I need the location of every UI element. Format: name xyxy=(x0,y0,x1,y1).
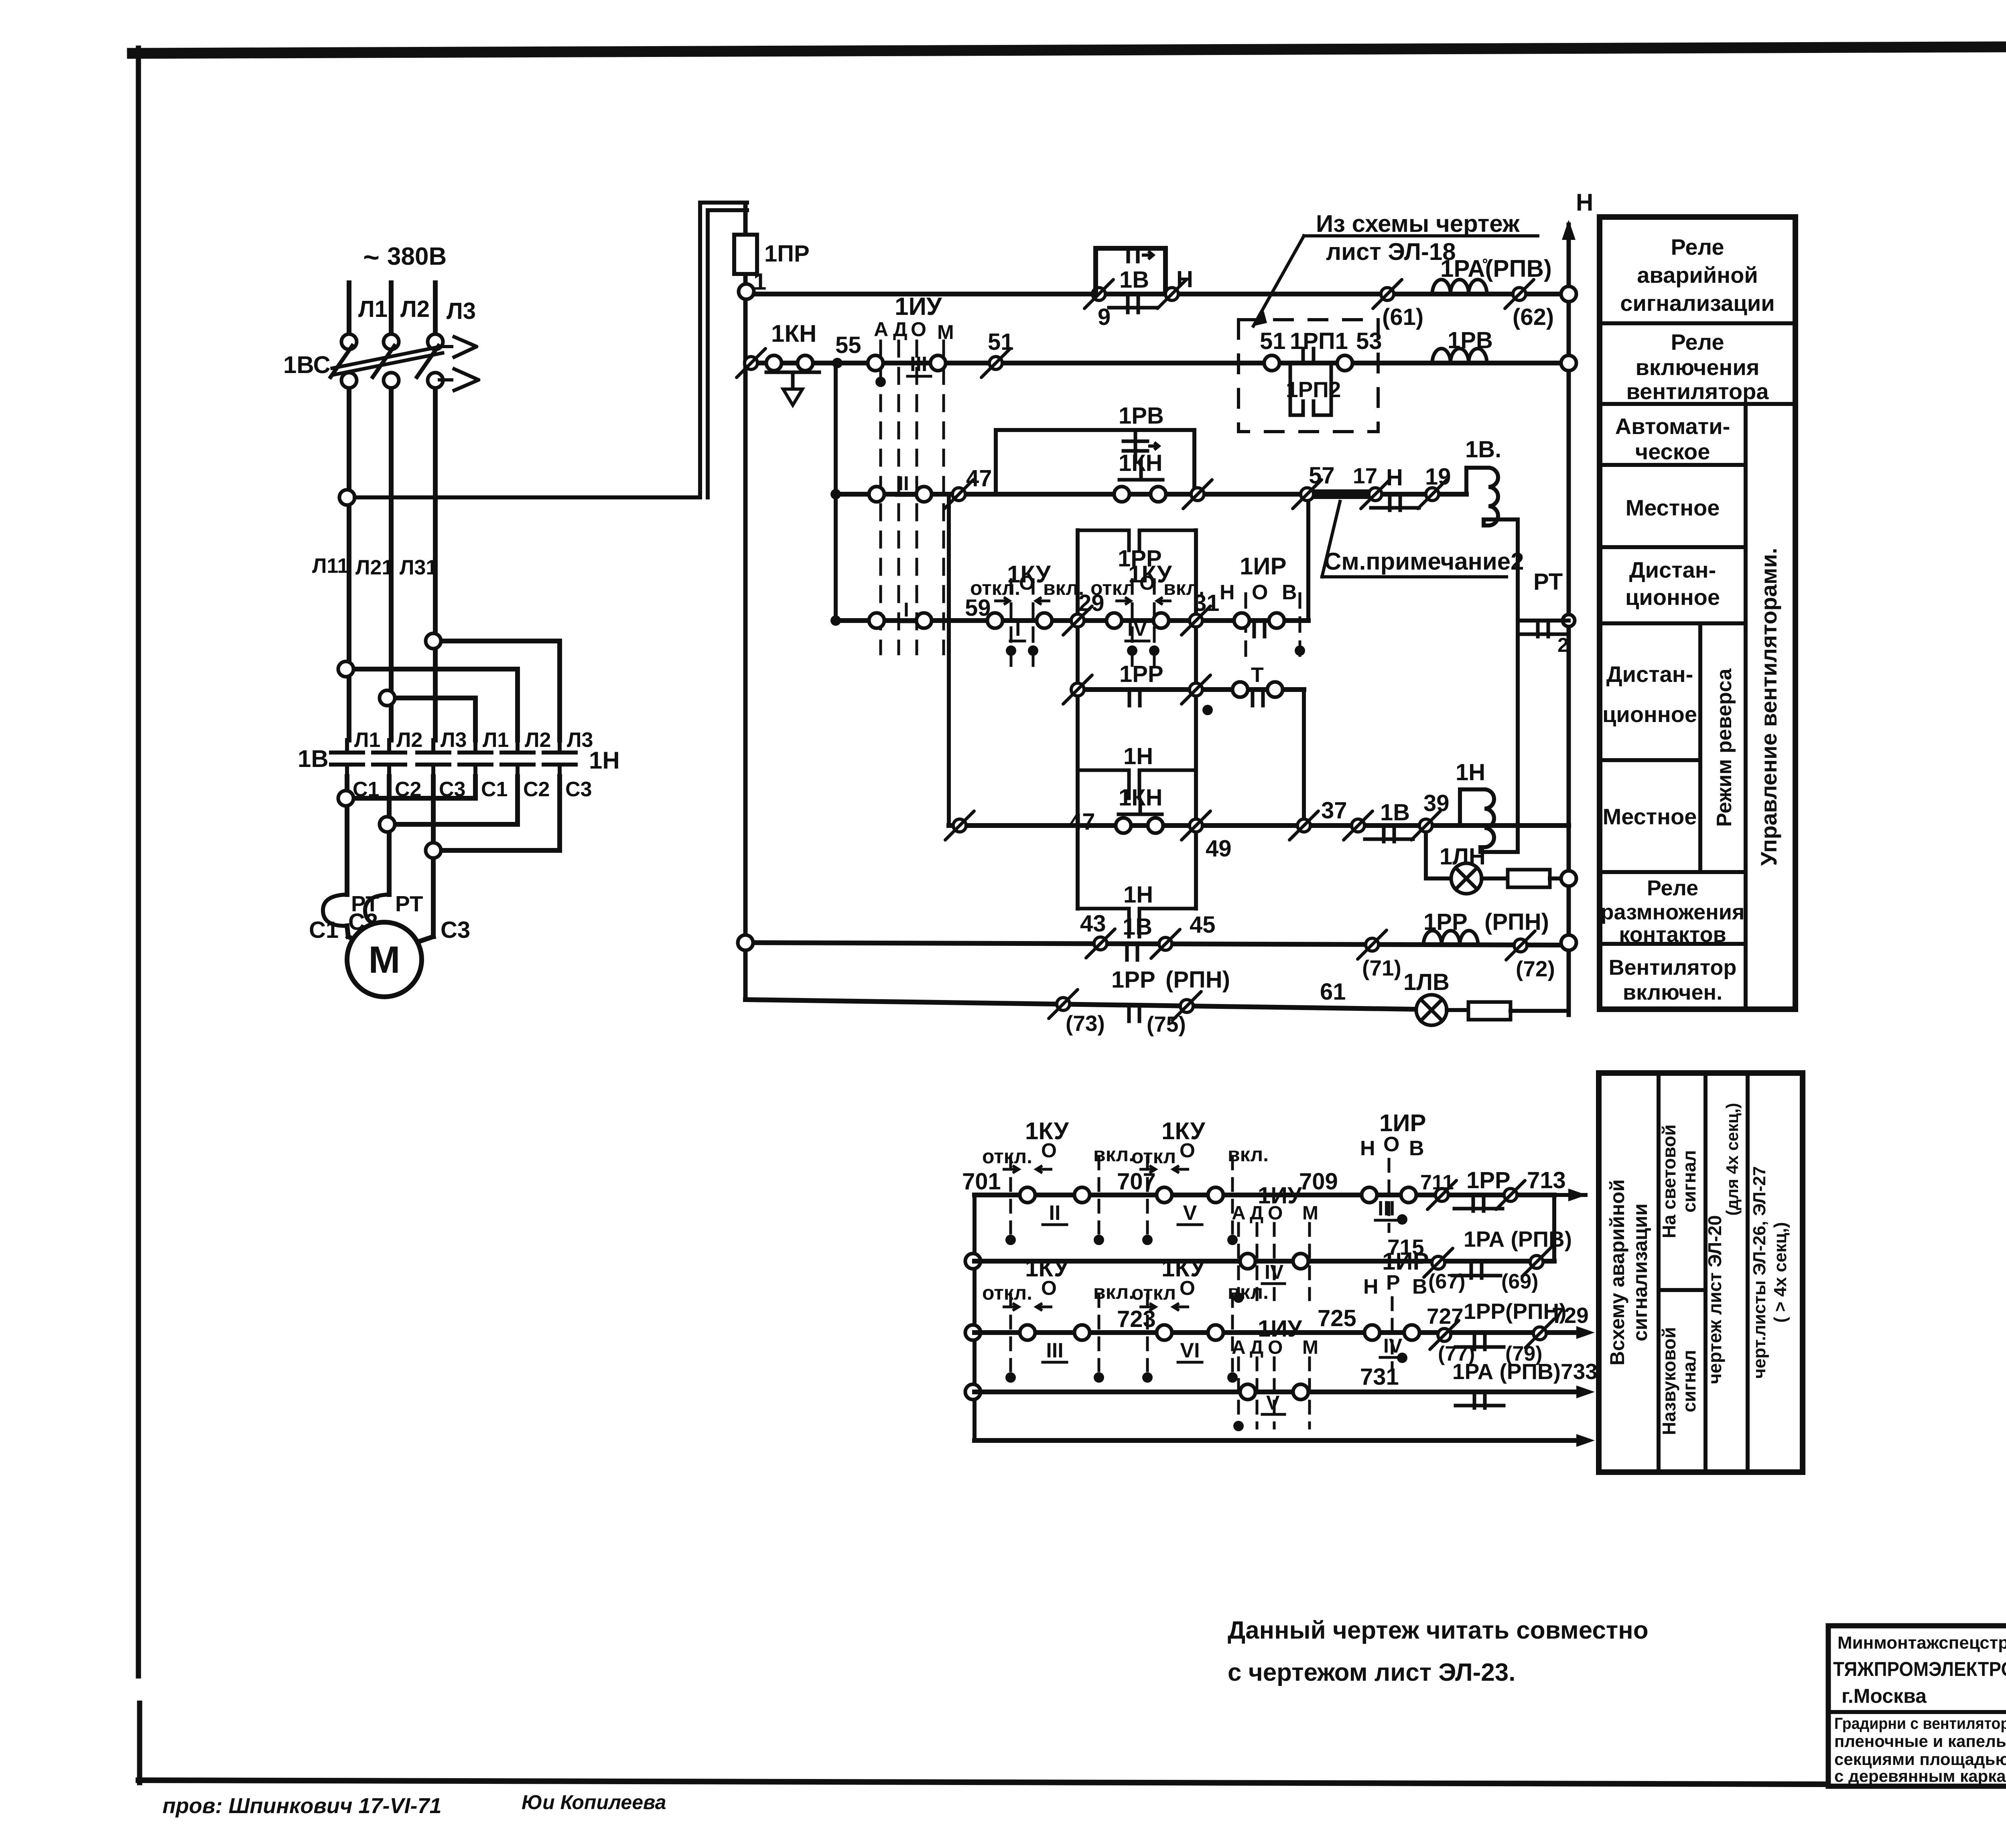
svg-text:1Н: 1Н xyxy=(589,747,620,774)
svg-text:729: 729 xyxy=(1552,1303,1589,1328)
svg-text:725: 725 xyxy=(1318,1305,1356,1331)
contact 1N bypass upper xyxy=(1078,743,1196,798)
svg-text:709: 709 xyxy=(1299,1168,1338,1195)
contact 1IU-V xyxy=(1232,1316,1318,1431)
svg-text:С1: С1 xyxy=(309,917,339,943)
contact 1RA (RPV) 733 xyxy=(1452,1359,1598,1408)
svg-text:55: 55 xyxy=(835,332,861,358)
svg-text:III: III xyxy=(1046,1339,1063,1362)
table row: local xyxy=(1626,495,1720,520)
svg-text:1ИР: 1ИР xyxy=(1379,1110,1426,1136)
relay box 1RP1 1RP2 (dashed) xyxy=(1239,320,1378,432)
labels L11 L21 L31 xyxy=(312,554,437,579)
svg-text:аварийной: аварийной xyxy=(1637,262,1758,288)
svg-text:47: 47 xyxy=(1069,809,1095,835)
wire motor leads xyxy=(347,807,433,931)
wire rail x3250 E-F xyxy=(1302,690,1306,826)
svg-text:М: М xyxy=(368,939,400,981)
svg-text:47: 47 xyxy=(966,465,992,491)
svg-text:V: V xyxy=(1266,1392,1280,1414)
contact slash at left xyxy=(945,809,1095,840)
svg-text:О: О xyxy=(1252,581,1268,604)
svg-text:Л1: Л1 xyxy=(354,728,380,752)
svg-text:Л3: Л3 xyxy=(447,298,476,324)
coil 1RA (RPV) xyxy=(1432,255,1552,294)
svg-text:ческое: ческое xyxy=(1635,439,1710,464)
labels RT RT xyxy=(351,891,423,916)
wire phase risers to contactors xyxy=(349,389,435,740)
svg-text:1: 1 xyxy=(753,269,766,295)
button 1KN hold contact xyxy=(1119,450,1163,480)
stop button 1KN xyxy=(766,320,819,405)
svg-text:Н: Н xyxy=(1363,1275,1379,1298)
wire phase leads L1 L2 L3 xyxy=(349,283,435,334)
svg-text:1Н: 1Н xyxy=(1123,743,1153,769)
svg-text:РТ: РТ xyxy=(395,891,423,916)
selector 1KU first contact group xyxy=(965,572,1084,666)
contact 1RP2 branch xyxy=(1286,363,1341,415)
signal table col2 top text xyxy=(1659,1124,1699,1238)
title block: issuer xyxy=(1833,1633,2006,1707)
label coil-side 1V xyxy=(298,745,329,772)
label 61 xyxy=(1320,979,1346,1005)
table row: contact multiplying relay xyxy=(1601,876,1745,947)
wire lower ladder left bus xyxy=(965,1195,981,1440)
svg-text:Л2: Л2 xyxy=(400,296,430,322)
svg-text:49: 49 xyxy=(1206,836,1232,862)
svg-text:Данный чертеж читать совме: Данный чертеж читать совместно xyxy=(1228,1617,1649,1644)
coil 1N vertical xyxy=(1444,759,1518,852)
contact 1RV time-delay xyxy=(1119,403,1164,451)
svg-text:вкл.: вкл. xyxy=(1228,1143,1269,1166)
svg-text:(71): (71) xyxy=(1362,955,1401,980)
contact 1IR-IV xyxy=(1363,1248,1429,1368)
title block frame xyxy=(1828,1626,2006,1786)
svg-text:1КУ: 1КУ xyxy=(1025,1255,1069,1282)
svg-text:2: 2 xyxy=(1557,634,1569,656)
svg-text:На световой: На световой xyxy=(1659,1124,1679,1238)
svg-text:с чертежом лист ЭЛ-23.: с чертежом лист ЭЛ-23. xyxy=(1228,1659,1515,1686)
node 57 thick segment (see note 2) xyxy=(1293,463,1390,509)
svg-text:Н: Н xyxy=(1576,189,1593,216)
selector 1KU second contact group xyxy=(1090,572,1204,666)
svg-text:См.примечание2: См.примечание2 xyxy=(1324,548,1524,575)
svg-text:Назвуковой: Назвуковой xyxy=(1659,1327,1679,1435)
svg-text:1В.: 1В. xyxy=(1465,436,1501,463)
label 707 xyxy=(1117,1168,1156,1195)
svg-text:В: В xyxy=(1282,581,1297,604)
svg-text:17: 17 xyxy=(1353,463,1377,488)
svg-text:1Н: 1Н xyxy=(1123,882,1153,908)
signal table col3 text xyxy=(1704,1103,1742,1384)
table row: automatic xyxy=(1615,414,1730,464)
contact 1RP1 xyxy=(1260,328,1382,371)
wire rail x2981 xyxy=(1194,530,1198,909)
contact slash 43 xyxy=(1080,911,1115,958)
contact slash pair rung E xyxy=(1063,675,1210,704)
svg-text:Л11: Л11 xyxy=(312,554,349,578)
svg-text:~: ~ xyxy=(363,241,380,273)
contact 1IU-III on rung B xyxy=(868,353,946,376)
label 1KU first xyxy=(1007,561,1051,588)
svg-text:1Н: 1Н xyxy=(1456,759,1485,785)
wire neutral bus N with arrow xyxy=(1562,220,1576,1015)
svg-text:пров: Шпинкович 17-VI-71: пров: Шпинкович 17-VI-71 xyxy=(162,1794,442,1818)
wire rung A xyxy=(755,292,1560,296)
wire rail x2686 xyxy=(1076,530,1080,909)
node tap to control circuit xyxy=(339,490,355,505)
bypass 1N lower xyxy=(1078,882,1196,937)
label 711 xyxy=(1420,1171,1454,1194)
svg-text:ТЯЖПРОМЭЛЕКТРОПРОЕКТ: ТЯЖПРОМЭЛЕКТРОПРОЕКТ xyxy=(1833,1658,2006,1680)
table column: reverse mode (rotated) xyxy=(1713,668,1736,827)
wire rail x2365 xyxy=(947,494,951,826)
svg-text:(72): (72) xyxy=(1516,956,1555,981)
wire rung E xyxy=(1078,687,1304,692)
svg-text:51: 51 xyxy=(988,329,1014,355)
svg-text:1РР: 1РР xyxy=(1466,1167,1511,1193)
contact (62) xyxy=(1505,280,1554,330)
label 1V xyxy=(1119,267,1149,293)
note read with sheet EL-23 xyxy=(1228,1617,1649,1686)
svg-text:Управление вентиляторами.: Управление вентиляторами. xyxy=(1756,548,1781,866)
table row: remote xyxy=(1625,557,1720,610)
svg-text:вкл.: вкл. xyxy=(1093,1143,1134,1166)
title block: object description xyxy=(1834,1715,2006,1785)
wire rung H xyxy=(745,1000,1416,1009)
svg-text:( > 4х секц,): ( > 4х секц,) xyxy=(1770,1222,1790,1323)
svg-text:I: I xyxy=(1015,617,1021,641)
button 1KN start xyxy=(1114,487,1166,502)
motor M xyxy=(347,922,422,997)
svg-text:31: 31 xyxy=(1194,590,1220,616)
label 713 xyxy=(1527,1167,1566,1193)
label N xyxy=(1576,189,1593,216)
table row: fan switching relay xyxy=(1626,329,1769,404)
labels contactor terminals C1..C3 xyxy=(353,778,592,801)
wire rung F xyxy=(949,823,1569,828)
svg-text:Минмонтажспецстрой СССР: Минмонтажспецстрой СССР xyxy=(1837,1633,2006,1653)
contact 1KU-VI xyxy=(1131,1255,1269,1383)
wire left control bus xyxy=(743,300,748,1000)
wire rung G xyxy=(754,943,1560,945)
svg-text:лист ЭЛ-18: лист ЭЛ-18 xyxy=(1326,238,1456,265)
svg-text:1В: 1В xyxy=(1119,267,1149,293)
node rung G tap xyxy=(738,935,753,950)
svg-text:включен.: включен. xyxy=(1623,980,1722,1004)
svg-text:В: В xyxy=(1412,1275,1427,1298)
svg-text:включения: включения xyxy=(1636,355,1760,380)
svg-text:Л2: Л2 xyxy=(396,728,422,752)
wire rail x3261 C-D xyxy=(1306,494,1310,621)
svg-text:1ЛВ: 1ЛВ xyxy=(1403,969,1450,995)
border frame left xyxy=(138,48,140,1783)
svg-text:откл: откл xyxy=(1131,1282,1176,1304)
button 1KN on rung F xyxy=(1116,785,1163,833)
contact slash 45 xyxy=(1151,912,1216,958)
svg-text:1РП1: 1РП1 xyxy=(1290,328,1348,354)
signal table col4 text xyxy=(1750,1166,1790,1379)
svg-text:черт.листы ЭЛ-26, ЭЛ-27: черт.листы ЭЛ-26, ЭЛ-27 xyxy=(1750,1166,1769,1379)
contact 51 xyxy=(981,329,1014,377)
contact slash 39 xyxy=(1411,790,1450,840)
thermal element RT phase A xyxy=(323,895,347,926)
svg-text:1ИУ: 1ИУ xyxy=(1258,1183,1302,1209)
label 725 xyxy=(1318,1305,1356,1331)
contact 1V time-delay branch xyxy=(1096,248,1165,312)
wire rung 715 xyxy=(975,1259,1554,1264)
svg-text:вкл.: вкл. xyxy=(1093,1281,1134,1303)
label 731 xyxy=(1360,1364,1399,1390)
contact slash after block xyxy=(1183,480,1212,509)
table row: fan on xyxy=(1609,955,1737,1004)
selector 1IU column A D O M xyxy=(874,293,954,654)
svg-text:1РА (РПВ): 1РА (РПВ) xyxy=(1464,1227,1572,1252)
contact slash (72) xyxy=(1506,931,1555,981)
coil 1RR (RPN) xyxy=(1423,909,1549,945)
svg-text:А: А xyxy=(874,318,888,341)
svg-text:Л1: Л1 xyxy=(358,296,388,322)
svg-text:В: В xyxy=(1409,1137,1424,1160)
function table frame xyxy=(1600,217,1795,1009)
selector 1IR contact N O V xyxy=(1220,553,1305,666)
svg-text:(РПН): (РПН) xyxy=(1165,967,1230,993)
svg-text:1КУ: 1КУ xyxy=(1161,1255,1205,1282)
label 701 xyxy=(962,1168,1001,1195)
contact 9 xyxy=(1084,280,1113,330)
svg-text:сигнализации: сигнализации xyxy=(1629,1203,1651,1341)
table column: fan control (rotated) xyxy=(1756,548,1781,866)
wire reversing tie upper 2 xyxy=(338,661,518,740)
svg-text:Местное: Местное xyxy=(1626,495,1720,520)
svg-text:19: 19 xyxy=(1425,464,1451,490)
svg-text:Т: Т xyxy=(1251,663,1264,687)
svg-text:1РА (РПВ)733: 1РА (РПВ)733 xyxy=(1452,1359,1598,1384)
disconnect switch 1VS xyxy=(331,346,443,388)
contact 1KU-III xyxy=(982,1255,1134,1383)
contact 1IU-I xyxy=(869,598,932,628)
thermal element RT phase B xyxy=(365,895,389,926)
svg-text:С3: С3 xyxy=(565,778,592,801)
svg-text:1КН: 1КН xyxy=(771,320,816,347)
wire bus corner to lamp rung xyxy=(1560,1009,1569,1013)
signal lamp 1LV with resistor xyxy=(1403,969,1569,1025)
label 1KU second xyxy=(1128,561,1172,588)
svg-text:1КН: 1КН xyxy=(1119,785,1163,811)
coil 1V vertical xyxy=(1465,436,1518,525)
svg-text:М: М xyxy=(1302,1203,1318,1224)
wire rung 701 xyxy=(975,1189,1587,1201)
contact slash + 1RR nc on rung 701 xyxy=(1427,1167,1525,1211)
svg-text:контактов: контактов xyxy=(1619,923,1726,947)
label 715 xyxy=(1387,1235,1424,1260)
wire motor stubs xyxy=(347,926,433,943)
svg-text:(62): (62) xyxy=(1513,304,1554,330)
svg-text:II: II xyxy=(898,472,909,495)
label 1PR xyxy=(764,241,810,267)
handwritten signatures xyxy=(162,1791,666,1818)
svg-text:IV: IV xyxy=(1127,617,1147,641)
contact 1KU-II xyxy=(982,1118,1134,1245)
svg-text:III: III xyxy=(910,353,927,376)
svg-text:Н: Н xyxy=(1386,465,1403,491)
wire rung D xyxy=(836,618,1308,623)
svg-text:С3: С3 xyxy=(441,917,470,943)
svg-text:1РВ: 1РВ xyxy=(1448,327,1493,353)
table row: local (reverse) xyxy=(1603,804,1697,829)
wire drop 701-715 xyxy=(1552,1195,1556,1261)
svg-text:Всхему аварийной: Всхему аварийной xyxy=(1606,1179,1628,1365)
svg-text:1РР: 1РР xyxy=(1119,661,1163,687)
svg-text:(75): (75) xyxy=(1147,1012,1186,1037)
svg-text:А: А xyxy=(1232,1337,1246,1358)
svg-text:Н: Н xyxy=(1220,581,1235,604)
contact 1IU-II xyxy=(869,472,932,502)
contact 1RR (RPN) nc xyxy=(1111,967,1230,1021)
svg-text:V: V xyxy=(1183,1201,1197,1225)
wire reversing tie upper 1 xyxy=(426,633,560,740)
svg-text:(для 4х секц,): (для 4х секц,) xyxy=(1723,1103,1742,1215)
svg-text:ционное: ционное xyxy=(1602,702,1697,727)
svg-text:1РП2: 1РП2 xyxy=(1286,377,1341,402)
contact slash at bus xyxy=(737,349,765,377)
contactor 1N main contacts xyxy=(459,740,576,777)
svg-text:С1: С1 xyxy=(481,778,508,801)
svg-text:Л21: Л21 xyxy=(355,556,393,579)
contact slash after 1V xyxy=(1157,280,1186,308)
signal table col2 bottom text xyxy=(1659,1327,1699,1435)
svg-text:откл.: откл. xyxy=(982,1282,1032,1304)
svg-text:1ИУ: 1ИУ xyxy=(1258,1316,1302,1342)
svg-text:(69): (69) xyxy=(1501,1270,1538,1293)
table row: emergency signal relay xyxy=(1620,234,1775,316)
svg-text:1КУ: 1КУ xyxy=(1128,561,1172,588)
svg-text:1ИУ: 1ИУ xyxy=(895,293,942,321)
svg-text:сигнализации: сигнализации xyxy=(1620,290,1775,316)
svg-text:1ИР: 1ИР xyxy=(1240,553,1287,580)
svg-text:Л31: Л31 xyxy=(400,556,437,579)
contact slash (73) xyxy=(1049,990,1105,1036)
wire rung 731 xyxy=(975,1385,1595,1398)
contact slash 19 xyxy=(1418,464,1451,509)
wire reversing tie lower 3 xyxy=(426,777,560,858)
svg-text:откл: откл xyxy=(1131,1145,1176,1168)
svg-text:(РПН): (РПН) xyxy=(1484,909,1549,935)
svg-text:г.Москва: г.Москва xyxy=(1842,1685,1927,1707)
svg-text:Дистан-: Дистан- xyxy=(1629,557,1716,582)
svg-text:1РР: 1РР xyxy=(1111,967,1155,993)
svg-text:380В: 380В xyxy=(387,243,447,270)
svg-text:(67): (67) xyxy=(1428,1270,1465,1293)
svg-text:Реле: Реле xyxy=(1647,876,1698,900)
svg-text:с деревянным каркасом.: с деревянным каркасом. xyxy=(1834,1767,2006,1785)
contactor 1V main contacts xyxy=(331,740,449,777)
wire bypass box 1RV/1KN xyxy=(996,430,1194,494)
svg-text:откл.: откл. xyxy=(982,1145,1032,1168)
note pointer see note 2 xyxy=(1322,501,1524,577)
contact 1IU-IV xyxy=(1232,1183,1318,1303)
svg-text:С2: С2 xyxy=(523,778,550,801)
contact 1V interlock xyxy=(1344,799,1413,842)
wire reversing tie upper 3 xyxy=(380,690,475,740)
wire reversing tie lower 2 xyxy=(380,777,518,832)
svg-text:57: 57 xyxy=(1309,463,1335,489)
svg-text:I: I xyxy=(904,598,909,621)
contact slash 49 xyxy=(1182,811,1232,862)
svg-text:1В: 1В xyxy=(1380,799,1410,826)
contact slash (67) + 1RA(RPV) xyxy=(1424,1227,1572,1293)
svg-text:1РА̊(РПВ): 1РА̊(РПВ) xyxy=(1440,255,1552,282)
node 1 xyxy=(739,269,766,299)
svg-text:РТ: РТ xyxy=(1533,569,1563,595)
svg-text:Режим реверса: Режим реверса xyxy=(1713,668,1736,827)
contact 1V on rung G xyxy=(1123,914,1152,960)
svg-text:А: А xyxy=(1232,1203,1246,1224)
overcurrent trip arrows I> T> xyxy=(439,336,479,391)
svg-text:1В: 1В xyxy=(298,745,329,772)
svg-text:Реле: Реле xyxy=(1671,234,1724,260)
contact slash (71) xyxy=(1358,930,1401,980)
svg-text:1ПР: 1ПР xyxy=(764,241,810,267)
svg-text:Из схемы чертеж: Из схемы чертеж xyxy=(1316,210,1520,237)
svg-text:731: 731 xyxy=(1360,1364,1399,1390)
node phase terminals top xyxy=(341,334,443,349)
contact slash (75) xyxy=(1147,992,1201,1037)
svg-text:45: 45 xyxy=(1190,912,1216,938)
table row: remote (reverse) xyxy=(1602,661,1697,727)
svg-text:1КУ: 1КУ xyxy=(1025,1118,1069,1144)
svg-text:VI: VI xyxy=(1180,1339,1200,1362)
label 723 xyxy=(1117,1306,1156,1332)
svg-text:вентилятора: вентилятора xyxy=(1626,379,1769,404)
thermal contact RT xyxy=(1518,569,1569,656)
svg-text:Л1: Л1 xyxy=(483,728,509,752)
svg-text:ционное: ционное xyxy=(1625,584,1720,610)
contact 1RR bypass xyxy=(1078,530,1196,572)
contact slash 29 xyxy=(1063,590,1105,635)
wire rung bottom spare xyxy=(975,1434,1595,1447)
signal table col1 text xyxy=(1606,1179,1651,1365)
label 1VS xyxy=(283,351,331,378)
svg-text:Градирни с вентиляторами 1ВГ25: Градирни с вентиляторами 1ВГ25 xyxy=(1834,1715,2006,1732)
svg-text:Автомати-: Автомати- xyxy=(1615,414,1730,439)
svg-text:пленочные и капельные с: пленочные и капельные с xyxy=(1834,1732,2006,1751)
signal table frame xyxy=(1599,1073,1803,1472)
wire rail x2083 xyxy=(830,363,841,626)
node bus junctions xyxy=(1561,286,1576,950)
contact slash 37 xyxy=(1289,797,1347,840)
svg-text:Дистан-: Дистан- xyxy=(1606,661,1693,687)
wire rung C xyxy=(836,492,1466,497)
svg-text:чертеж лист ЭЛ-20: чертеж лист ЭЛ-20 xyxy=(1704,1215,1725,1384)
svg-text:II: II xyxy=(1049,1201,1061,1225)
svg-text:701: 701 xyxy=(962,1168,1001,1195)
svg-text:1В: 1В xyxy=(1123,914,1152,940)
svg-text:М: М xyxy=(937,321,954,343)
wire control-supply tap xyxy=(355,203,747,505)
svg-text:51: 51 xyxy=(1260,328,1286,354)
svg-text:сигнал: сигнал xyxy=(1679,1350,1699,1412)
svg-text:61: 61 xyxy=(1320,979,1346,1005)
svg-text:сигнал: сигнал xyxy=(1679,1150,1699,1213)
svg-text:(73): (73) xyxy=(1066,1011,1105,1036)
contact 1IR-T xyxy=(1202,663,1283,715)
svg-text:Н: Н xyxy=(1360,1137,1375,1160)
contact 1IR-III xyxy=(1360,1110,1426,1231)
svg-text:1КУ: 1КУ xyxy=(1161,1118,1205,1144)
svg-text:Д: Д xyxy=(893,318,908,341)
note from sheet EL-18 xyxy=(1253,210,1538,326)
